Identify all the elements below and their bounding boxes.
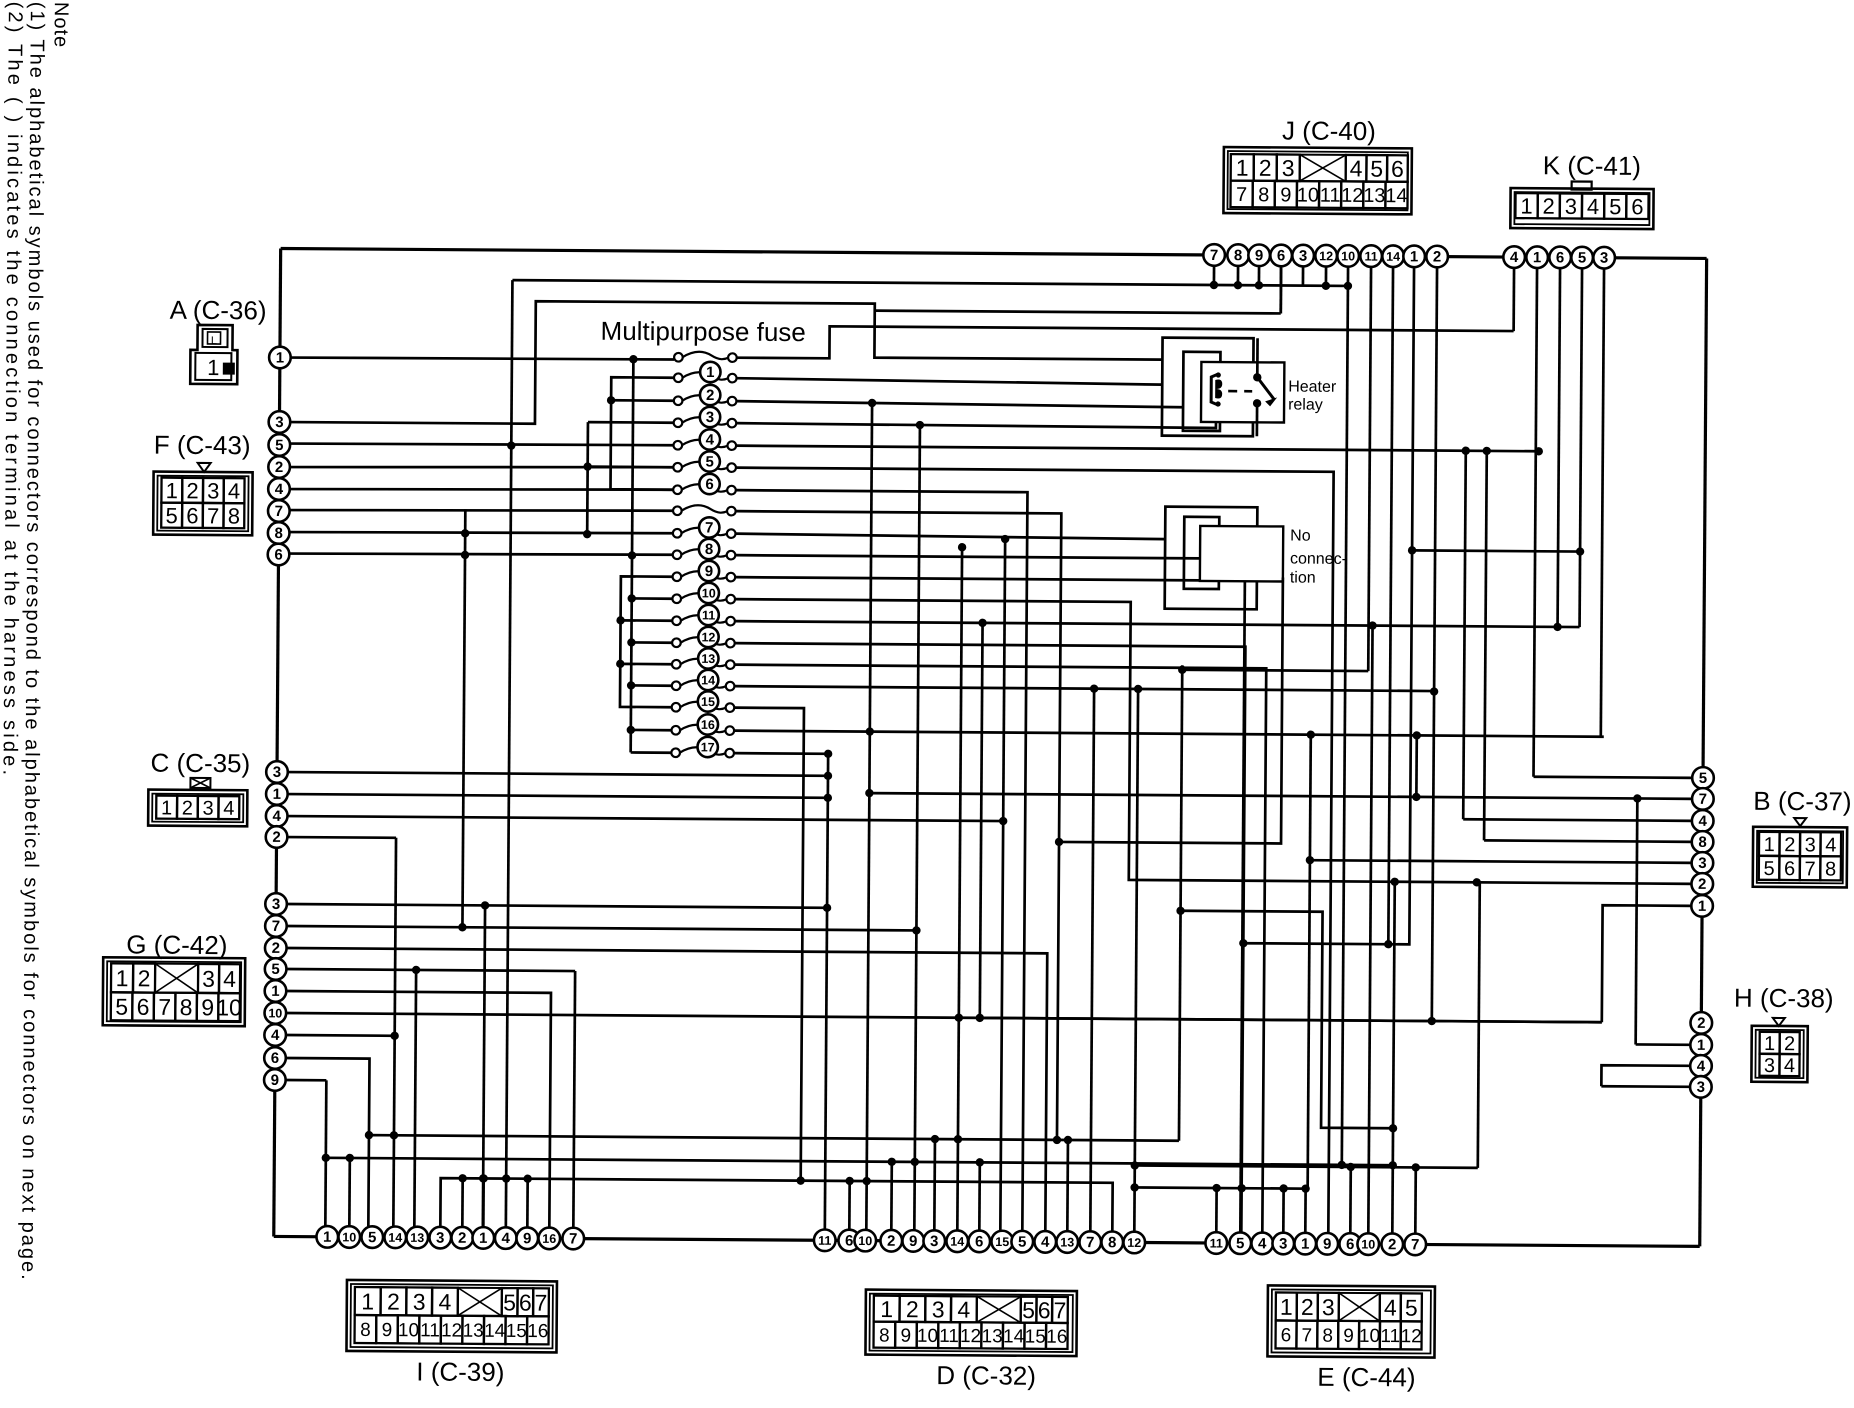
svg-text:7: 7 (207, 503, 219, 528)
svg-text:3: 3 (1565, 194, 1577, 219)
svg-text:6: 6 (186, 503, 198, 528)
svg-text:8: 8 (1322, 1326, 1333, 1347)
svg-text:3: 3 (930, 1233, 938, 1250)
svg-text:5: 5 (115, 994, 128, 1020)
svg-text:7: 7 (1411, 1236, 1419, 1253)
svg-text:4: 4 (223, 798, 234, 820)
svg-text:16: 16 (1046, 1327, 1067, 1348)
svg-text:5: 5 (705, 453, 713, 470)
svg-text:16: 16 (542, 1232, 556, 1246)
svg-text:4: 4 (1825, 834, 1836, 856)
svg-text:4: 4 (1698, 813, 1707, 830)
svg-text:4: 4 (1510, 249, 1519, 266)
svg-text:1: 1 (1280, 1294, 1293, 1320)
svg-text:4: 4 (1350, 155, 1363, 181)
svg-text:1: 1 (1764, 834, 1775, 856)
svg-text:10: 10 (398, 1320, 419, 1341)
svg-text:9: 9 (201, 994, 214, 1020)
svg-text:F (C-43): F (C-43) (154, 430, 251, 461)
svg-text:9: 9 (1280, 184, 1291, 206)
svg-text:17: 17 (701, 740, 715, 754)
svg-text:Heater: Heater (1288, 379, 1337, 396)
svg-text:7: 7 (1210, 247, 1218, 264)
svg-text:2: 2 (272, 940, 280, 957)
svg-text:tion: tion (1290, 570, 1316, 587)
svg-text:connec-: connec- (1290, 551, 1347, 568)
svg-text:12: 12 (1319, 249, 1333, 263)
svg-text:11: 11 (420, 1320, 440, 1341)
svg-text:9: 9 (382, 1320, 393, 1341)
svg-text:5: 5 (271, 961, 279, 978)
svg-text:1: 1 (273, 786, 281, 803)
svg-text:9: 9 (1343, 1326, 1354, 1347)
svg-text:10: 10 (1297, 184, 1319, 206)
svg-text:4: 4 (1784, 1055, 1795, 1077)
svg-text:3: 3 (1299, 248, 1307, 265)
svg-text:4: 4 (438, 1289, 451, 1315)
svg-text:8: 8 (360, 1320, 371, 1341)
svg-text:11: 11 (939, 1326, 959, 1347)
svg-text:2: 2 (182, 798, 193, 820)
svg-text:1: 1 (361, 1288, 374, 1314)
svg-text:8: 8 (1698, 834, 1706, 851)
svg-text:10: 10 (1359, 1326, 1380, 1347)
svg-text:9: 9 (271, 1072, 279, 1089)
svg-text:12: 12 (701, 630, 715, 644)
svg-text:13: 13 (1060, 1235, 1074, 1249)
svg-text:2: 2 (1388, 1236, 1396, 1253)
svg-text:7: 7 (1302, 1325, 1313, 1346)
svg-text:3: 3 (706, 409, 714, 426)
svg-text:3: 3 (1282, 155, 1295, 181)
svg-text:3: 3 (202, 966, 215, 992)
svg-text:16: 16 (527, 1321, 548, 1342)
svg-text:12: 12 (1401, 1326, 1422, 1347)
svg-text:5: 5 (503, 1289, 516, 1315)
svg-text:1: 1 (1236, 155, 1249, 181)
svg-text:2: 2 (138, 965, 151, 991)
svg-text:12: 12 (960, 1326, 981, 1347)
svg-text:2: 2 (1433, 249, 1441, 266)
svg-text:14: 14 (950, 1235, 964, 1249)
svg-text:3: 3 (273, 764, 281, 781)
svg-text:11: 11 (702, 608, 715, 622)
svg-text:2: 2 (1301, 1294, 1314, 1320)
svg-text:1: 1 (161, 797, 172, 819)
svg-text:3: 3 (1805, 834, 1816, 856)
svg-text:1: 1 (1301, 1236, 1309, 1253)
svg-text:1: 1 (706, 364, 714, 381)
svg-text:B (C-37): B (C-37) (1753, 786, 1851, 817)
svg-text:3: 3 (1697, 1079, 1705, 1096)
svg-text:10: 10 (858, 1234, 872, 1248)
svg-text:11: 11 (818, 1234, 831, 1248)
svg-text:10: 10 (1341, 249, 1355, 263)
svg-text:(2) The ( ) indicates th: (2) The ( ) indicates the connection ter… (0, 2, 26, 779)
svg-text:I (C-39): I (C-39) (416, 1356, 504, 1387)
svg-text:1: 1 (1764, 1033, 1775, 1055)
svg-text:C (C-35): C (C-35) (150, 748, 250, 779)
svg-text:14: 14 (701, 673, 715, 687)
svg-text:14: 14 (1386, 250, 1400, 264)
svg-text:5: 5 (368, 1229, 376, 1246)
svg-text:8: 8 (228, 504, 240, 529)
svg-text:13: 13 (410, 1231, 424, 1245)
svg-text:15: 15 (995, 1235, 1009, 1249)
svg-text:2: 2 (906, 1296, 919, 1322)
svg-text:2: 2 (1542, 194, 1554, 219)
svg-text:13: 13 (1363, 185, 1385, 207)
svg-text:2: 2 (1784, 1033, 1795, 1055)
svg-text:8: 8 (1234, 247, 1242, 264)
svg-text:2: 2 (706, 387, 714, 404)
svg-text:4: 4 (1697, 1058, 1706, 1075)
svg-text:13: 13 (982, 1326, 1003, 1347)
svg-text:2: 2 (387, 1289, 400, 1315)
svg-text:9: 9 (909, 1233, 917, 1250)
svg-text:14: 14 (1385, 185, 1407, 207)
svg-text:3: 3 (275, 414, 283, 431)
svg-text:2: 2 (186, 478, 198, 503)
svg-text:11: 11 (1210, 1236, 1223, 1250)
svg-text:9: 9 (1255, 247, 1263, 264)
svg-text:6: 6 (1038, 1297, 1051, 1323)
svg-text:3: 3 (932, 1296, 945, 1322)
svg-text:6: 6 (137, 994, 150, 1020)
svg-text:3: 3 (1600, 250, 1608, 267)
svg-text:15: 15 (506, 1321, 527, 1342)
svg-text:12: 12 (441, 1320, 462, 1341)
svg-text:2: 2 (1698, 876, 1706, 893)
svg-text:14: 14 (388, 1231, 402, 1245)
svg-text:2: 2 (458, 1230, 466, 1247)
svg-text:6: 6 (1277, 247, 1285, 264)
svg-text:D (C-32): D (C-32) (936, 1360, 1036, 1391)
svg-text:1: 1 (271, 983, 279, 1000)
svg-text:1: 1 (1697, 1037, 1705, 1054)
svg-text:4: 4 (228, 479, 240, 504)
svg-text:5: 5 (1022, 1297, 1035, 1323)
svg-text:5: 5 (1370, 156, 1383, 182)
svg-text:14: 14 (484, 1321, 506, 1342)
svg-text:E (C-44): E (C-44) (1317, 1362, 1415, 1393)
svg-text:9: 9 (523, 1230, 531, 1247)
svg-text:4: 4 (275, 481, 284, 498)
svg-text:16: 16 (701, 718, 715, 732)
svg-text:4: 4 (1384, 1295, 1397, 1321)
svg-text:J (C-40): J (C-40) (1282, 115, 1376, 146)
svg-text:8: 8 (879, 1325, 890, 1346)
svg-text:9: 9 (1323, 1236, 1331, 1253)
svg-text:5: 5 (1236, 1235, 1244, 1252)
svg-text:7: 7 (158, 994, 171, 1020)
svg-text:8: 8 (705, 541, 713, 558)
svg-text:4: 4 (1041, 1234, 1050, 1251)
svg-text:6: 6 (705, 476, 713, 493)
svg-text:3: 3 (1698, 855, 1706, 872)
svg-text:1: 1 (276, 349, 284, 366)
svg-text:1: 1 (1698, 898, 1706, 915)
svg-text:6: 6 (1631, 194, 1643, 219)
svg-text:5: 5 (1018, 1234, 1026, 1251)
svg-text:5: 5 (1763, 858, 1774, 880)
svg-text:Note: Note (50, 2, 72, 48)
svg-text:15: 15 (701, 695, 715, 709)
svg-text:6: 6 (975, 1233, 983, 1250)
svg-text:3: 3 (1322, 1294, 1335, 1320)
svg-text:8: 8 (274, 525, 282, 542)
svg-text:14: 14 (1003, 1326, 1025, 1347)
svg-text:4: 4 (223, 966, 236, 992)
svg-text:7: 7 (1086, 1234, 1094, 1251)
svg-text:7: 7 (1053, 1297, 1066, 1323)
svg-text:1: 1 (479, 1230, 487, 1247)
svg-text:K (C-41): K (C-41) (1543, 150, 1641, 181)
svg-text:8: 8 (1108, 1234, 1116, 1251)
svg-text:7: 7 (1804, 858, 1815, 880)
svg-text:4: 4 (1587, 194, 1599, 219)
svg-text:1: 1 (166, 478, 178, 503)
svg-text:5: 5 (165, 503, 177, 528)
svg-text:3: 3 (207, 478, 219, 503)
svg-text:G (C-42): G (C-42) (126, 929, 227, 960)
svg-text:6: 6 (519, 1289, 532, 1315)
svg-text:6: 6 (1346, 1236, 1354, 1253)
svg-text:10: 10 (216, 994, 242, 1020)
svg-text:Multipurpose fuse: Multipurpose fuse (600, 316, 805, 347)
svg-text:1: 1 (1410, 248, 1418, 265)
svg-text:10: 10 (917, 1326, 938, 1347)
svg-text:15: 15 (1025, 1326, 1046, 1347)
svg-text:10: 10 (702, 586, 716, 600)
svg-text:11: 11 (1364, 250, 1377, 264)
svg-text:4: 4 (706, 431, 715, 448)
svg-text:13: 13 (463, 1321, 484, 1342)
svg-text:1: 1 (1520, 194, 1532, 219)
svg-text:6: 6 (271, 1050, 279, 1067)
svg-text:H (C-38): H (C-38) (1734, 983, 1834, 1014)
svg-text:1: 1 (116, 965, 129, 991)
svg-text:1: 1 (207, 355, 219, 380)
svg-text:4: 4 (272, 808, 281, 825)
svg-text:12: 12 (1127, 1236, 1141, 1250)
svg-text:3: 3 (272, 896, 280, 913)
svg-text:7: 7 (569, 1231, 577, 1248)
svg-text:relay: relay (1288, 397, 1323, 414)
svg-text:4: 4 (271, 1027, 280, 1044)
svg-text:4: 4 (957, 1297, 970, 1323)
svg-text:2: 2 (1784, 834, 1795, 856)
svg-text:2: 2 (272, 829, 280, 846)
svg-text:8: 8 (180, 994, 193, 1020)
svg-text:5: 5 (1699, 770, 1707, 787)
svg-text:3: 3 (1764, 1055, 1775, 1077)
svg-text:11: 11 (1380, 1326, 1400, 1347)
svg-text:6: 6 (274, 546, 282, 563)
svg-text:9: 9 (705, 563, 713, 580)
svg-text:6: 6 (1556, 249, 1564, 266)
svg-text:8: 8 (1258, 184, 1269, 206)
svg-text:No: No (1290, 528, 1311, 545)
svg-text:2: 2 (275, 459, 283, 476)
svg-text:7: 7 (1236, 184, 1247, 206)
svg-text:5: 5 (275, 437, 283, 454)
svg-text:12: 12 (1341, 185, 1363, 207)
svg-text:4: 4 (1258, 1235, 1267, 1252)
svg-text:6: 6 (1391, 156, 1404, 182)
svg-text:10: 10 (342, 1230, 356, 1244)
svg-text:11: 11 (1320, 185, 1341, 207)
svg-text:A (C-36): A (C-36) (170, 295, 267, 326)
svg-text:7: 7 (275, 503, 283, 520)
svg-text:5: 5 (1578, 250, 1586, 267)
svg-text:9: 9 (901, 1326, 912, 1347)
svg-text:6: 6 (1281, 1325, 1292, 1346)
svg-text:4: 4 (502, 1230, 511, 1247)
svg-text:6: 6 (1784, 858, 1795, 880)
svg-text:13: 13 (701, 652, 715, 666)
svg-text:2: 2 (887, 1233, 895, 1250)
svg-text:5: 5 (1405, 1295, 1418, 1321)
svg-text:10: 10 (1361, 1238, 1375, 1252)
svg-text:6: 6 (845, 1232, 853, 1249)
svg-text:7: 7 (705, 519, 713, 536)
svg-text:1: 1 (880, 1296, 893, 1322)
svg-text:3: 3 (1279, 1235, 1287, 1252)
svg-text:7: 7 (1699, 791, 1707, 808)
svg-text:3: 3 (413, 1289, 426, 1315)
svg-text:2: 2 (1259, 155, 1272, 181)
svg-text:10: 10 (268, 1006, 282, 1020)
svg-text:8: 8 (1825, 858, 1836, 880)
svg-text:3: 3 (436, 1230, 444, 1247)
svg-text:1: 1 (323, 1229, 331, 1246)
svg-text:3: 3 (203, 798, 214, 820)
svg-text:2: 2 (1697, 1015, 1705, 1032)
svg-text:5: 5 (1609, 194, 1621, 219)
svg-text:L: L (211, 335, 217, 347)
svg-text:7: 7 (535, 1290, 548, 1316)
svg-text:1: 1 (1533, 249, 1541, 266)
svg-text:7: 7 (272, 918, 280, 935)
